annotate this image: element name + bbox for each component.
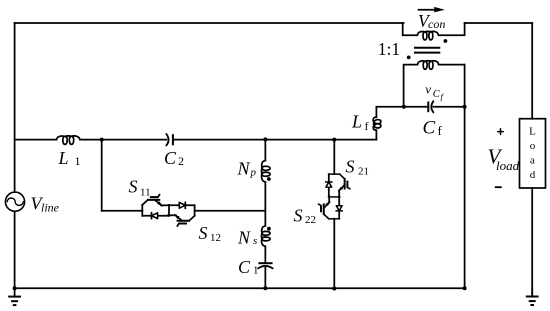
svg-text:2: 2: [178, 154, 184, 168]
wire middle rail C2 to Lf corner: [173, 139, 377, 141]
svg-text:L: L: [351, 112, 362, 132]
label minus: [496, 186, 502, 188]
node junction secondary left / Cf line: [402, 105, 406, 109]
ground left: [8, 288, 21, 305]
svg-text:L: L: [529, 126, 536, 138]
svg-text:L: L: [58, 148, 69, 168]
arrow V_con: [419, 7, 445, 12]
secondary winding of injection transformer: [418, 61, 439, 70]
svg-text:p: p: [250, 167, 257, 179]
wire middle rail L1 to C2: [80, 139, 166, 141]
wire right edge (load branch from top rail): [531, 23, 533, 119]
svg-text:d: d: [530, 169, 536, 181]
polarity dot Ns: [267, 227, 271, 231]
winding Np: [262, 161, 271, 183]
svg-text:S: S: [129, 177, 138, 197]
node junction Cf right: [463, 105, 467, 109]
node junction S22 bottom: [332, 287, 336, 291]
node junction at S21 branch top: [332, 138, 336, 142]
svg-text:v: v: [425, 82, 431, 97]
wire left edge upper (source to top rail): [14, 23, 16, 192]
svg-text:S: S: [294, 206, 303, 226]
svg-text:a: a: [530, 155, 535, 167]
svg-text:f: f: [365, 119, 369, 133]
node junction after L1: [100, 138, 104, 142]
wire right vertical (secondary right to bottom rail): [464, 65, 466, 289]
wire primary dip right: [439, 23, 465, 35]
primary winding of injection transformer: [417, 31, 438, 40]
inductor Lf: [373, 117, 381, 130]
transformer core: [414, 48, 440, 53]
wire top rail: [15, 22, 404, 24]
svg-text:con: con: [428, 17, 445, 31]
node junction right vertical bottom: [463, 286, 467, 290]
wire bottom rail: [15, 287, 465, 289]
wire between Np and Ns: [264, 182, 266, 226]
svg-text:12: 12: [210, 232, 221, 244]
wire left edge lower (source to bottom rail): [14, 211, 16, 288]
capacitor Cf: [428, 101, 433, 112]
wire secondary right segment: [439, 64, 465, 66]
node junction C1 bottom: [263, 286, 267, 290]
label plus: [498, 129, 504, 135]
polarity dot Np: [267, 177, 271, 181]
winding Ns: [262, 226, 271, 246]
svg-text:f: f: [441, 91, 445, 101]
wire secondary left segment: [404, 65, 418, 107]
wire Cf to right vertical: [433, 106, 464, 108]
svg-text:N: N: [237, 228, 251, 248]
svg-text:11: 11: [140, 187, 151, 199]
wire middle rail left (to L1): [15, 139, 57, 141]
label Load (stacked): [529, 126, 536, 182]
capacitor C2: [166, 134, 173, 146]
wire top rail right of injection transformer: [465, 22, 533, 24]
capacitor C1: [258, 263, 273, 268]
wire load bottom to ground: [531, 188, 533, 296]
wire switch output to transformer mid: [195, 210, 266, 212]
wire into switch S11/S12: [102, 210, 143, 212]
svg-text:C: C: [238, 257, 251, 277]
svg-text:1: 1: [75, 154, 81, 168]
polarity dot secondary: [407, 56, 411, 60]
svg-text:f: f: [438, 123, 443, 138]
AC source V_line: [5, 192, 24, 211]
svg-text:C: C: [423, 118, 436, 139]
polarity dot primary: [444, 39, 448, 43]
wire middle rail corner up to Lf: [375, 130, 377, 139]
svg-text:s: s: [253, 235, 257, 247]
ground right (load): [526, 288, 539, 305]
svg-text:1: 1: [253, 265, 259, 277]
node junction bottom-left: [13, 286, 17, 290]
svg-text:o: o: [530, 140, 536, 152]
bidirectional switch S21 S22: [319, 174, 350, 219]
bidirectional switch S11 S12: [142, 195, 194, 226]
wire C1 to bottom rail: [264, 268, 266, 289]
node junction at Np top: [263, 137, 267, 141]
svg-text:S: S: [346, 157, 355, 177]
svg-text:C: C: [164, 148, 177, 168]
wire primary dip left: [403, 23, 418, 35]
svg-text:load: load: [496, 158, 520, 173]
svg-text:22: 22: [305, 214, 316, 226]
wire S21 branch from middle rail: [333, 140, 335, 175]
inductor L1: [57, 136, 81, 145]
wire branch down from L1 junction: [101, 140, 103, 211]
wire Lf up and right to Cf line: [376, 107, 428, 117]
wire Np top: [264, 139, 266, 160]
wire Ns to C1: [264, 246, 266, 263]
svg-text:line: line: [41, 200, 60, 214]
load box: [520, 119, 546, 188]
svg-text:N: N: [237, 159, 251, 179]
svg-text:1:1: 1:1: [378, 39, 400, 59]
svg-text:21: 21: [358, 166, 369, 178]
wire S22 to bottom rail: [333, 219, 335, 288]
svg-text:S: S: [199, 223, 208, 243]
